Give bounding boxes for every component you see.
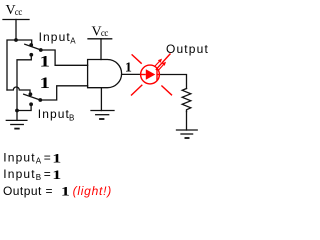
ground left xyxy=(6,111,27,129)
svg-text:Input: Input xyxy=(3,167,35,181)
svg-text:A: A xyxy=(70,37,76,46)
wire Vcc to gate xyxy=(100,39,102,60)
svg-text:cc: cc xyxy=(101,28,108,38)
wire feed switch A top xyxy=(7,40,32,90)
wire switch B lower throw to ground node xyxy=(17,104,31,110)
wire switch B feed with hop xyxy=(7,87,30,94)
node switch A throw 1 xyxy=(29,43,33,47)
LED D1 xyxy=(131,54,172,96)
node switch B throw 1 xyxy=(29,92,33,96)
node switch B throw 2 xyxy=(29,102,33,106)
ground right xyxy=(177,112,198,139)
LED cathode wire xyxy=(157,74,160,76)
node ground junction xyxy=(15,109,19,113)
Vcc rail A bar xyxy=(3,19,29,21)
text line InputA = 1 xyxy=(3,150,61,165)
light ray NW xyxy=(132,54,142,63)
wire switch B common to gate input 2 xyxy=(40,86,87,100)
LED circle xyxy=(141,65,160,84)
svg-text:Input: Input xyxy=(39,30,71,44)
svg-text:=: = xyxy=(44,167,51,181)
svg-text:1: 1 xyxy=(40,75,51,92)
label Vcc A xyxy=(6,3,23,18)
node Vcc-A junction xyxy=(14,38,18,42)
LED arrow 2 xyxy=(158,63,165,71)
svg-text:=: = xyxy=(44,150,51,164)
light ray SW xyxy=(131,85,142,96)
svg-text:A: A xyxy=(36,157,42,166)
wire Vcc to node xyxy=(15,20,17,41)
svg-text:1: 1 xyxy=(125,60,132,75)
svg-text:1: 1 xyxy=(52,150,61,165)
svg-text:1: 1 xyxy=(61,184,70,199)
wire LED to resistor xyxy=(160,75,187,89)
wire switch A lower throw to inner rail xyxy=(17,55,31,111)
svg-text:cc: cc xyxy=(15,7,23,17)
LED triangle xyxy=(146,69,156,80)
ground gate xyxy=(91,111,114,120)
svg-text:Input: Input xyxy=(38,107,70,121)
node switch A common xyxy=(39,48,43,52)
wire switch A common to gate input 1 xyxy=(41,50,88,65)
LED cathode bar xyxy=(156,69,158,81)
svg-text:Output: Output xyxy=(166,42,209,56)
resistor R1 xyxy=(182,89,191,112)
svg-text:(light!): (light!) xyxy=(73,184,112,198)
wire gate to ground xyxy=(100,88,102,111)
svg-text:B: B xyxy=(36,173,41,182)
LED arrow 1 xyxy=(154,60,161,67)
text line Output = 1 (light!) xyxy=(3,184,112,199)
label Input B xyxy=(38,107,75,123)
node switch B common xyxy=(38,98,42,102)
node switch A throw 2 xyxy=(29,53,33,57)
op-amp gate U1 AND xyxy=(88,60,122,88)
light ray NE xyxy=(156,54,171,70)
svg-text:1: 1 xyxy=(40,54,51,71)
LED anode wire xyxy=(141,74,146,76)
label Input A xyxy=(39,30,77,46)
Vcc bar gate xyxy=(88,38,112,40)
svg-text:Input: Input xyxy=(3,150,35,164)
svg-text:Output: Output xyxy=(3,184,42,198)
switch A lever xyxy=(25,44,41,50)
svg-text:1: 1 xyxy=(52,167,61,182)
text line InputB = 1 xyxy=(3,167,61,182)
switch B lever xyxy=(24,94,41,100)
svg-text:B: B xyxy=(69,114,74,123)
wire gate output to LED xyxy=(122,73,141,75)
node junction dots xyxy=(14,38,43,112)
svg-text:=: = xyxy=(46,184,53,198)
label Vcc gate xyxy=(92,24,109,39)
light ray SE xyxy=(161,86,172,96)
